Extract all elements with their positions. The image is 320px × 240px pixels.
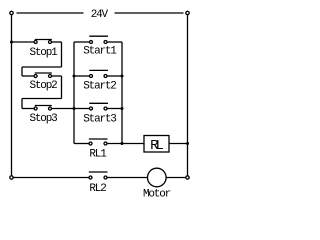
wire Start group right bus	[121, 42, 123, 144]
wire row3 into Stop3	[22, 108, 34, 110]
pushbutton Stop1 (NC)	[34, 40, 52, 44]
wire left rail vertical	[11, 15, 13, 176]
wire RL1 row left	[74, 143, 89, 145]
relay contact RL1 (NO)	[89, 139, 108, 145]
wire Start2 branch left	[74, 75, 90, 77]
junction right rail RL coil row	[186, 142, 189, 145]
relay coil RL box	[144, 136, 169, 153]
wire Start3 branch right	[107, 108, 122, 110]
wire coil to right rail	[169, 143, 188, 145]
terminal bottom left	[10, 176, 13, 179]
wire right rail vertical	[187, 15, 189, 176]
wire Stop1 exit	[51, 41, 61, 43]
pushbutton Stop2 (NC)	[34, 73, 52, 78]
pushbutton Start3 (NO)	[89, 103, 108, 110]
wire top rail left segment	[17, 12, 84, 14]
svg-text:Start1: Start1	[83, 46, 117, 58]
wire Start1 branch right	[107, 41, 122, 43]
wire vertical after Stop2	[61, 76, 63, 99]
pushbutton Start2 (NO)	[89, 70, 108, 77]
motor M	[148, 168, 167, 187]
wire vertical into Stop3	[21, 99, 23, 109]
pushbutton Start1 (NO)	[89, 36, 108, 43]
svg-text:RL1: RL1	[89, 149, 107, 161]
svg-text:Motor: Motor	[143, 189, 171, 201]
svg-text:RL2: RL2	[89, 183, 106, 195]
svg-text:Stop2: Stop2	[29, 80, 57, 92]
svg-text:Start3: Start3	[83, 114, 116, 126]
wire horizontal zigzag 1	[22, 66, 62, 68]
wire RL2 to motor	[107, 177, 147, 179]
terminal 24V left	[10, 11, 13, 14]
wire Start2 branch right	[107, 75, 122, 77]
pushbutton Stop3 (NC)	[34, 106, 52, 111]
wire vertical into Stop2	[21, 67, 23, 76]
wire Start group left bus	[73, 42, 75, 144]
junction right bus RL1 row	[121, 142, 124, 145]
junction left rail row1	[10, 41, 13, 44]
svg-text:Stop1: Stop1	[29, 47, 58, 59]
terminal 24V right	[186, 11, 189, 14]
svg-text:Start2: Start2	[83, 81, 116, 93]
wire vertical after Stop1	[61, 42, 63, 67]
relay contact RL2 (NO)	[89, 172, 108, 179]
svg-text:24V: 24V	[91, 9, 109, 21]
junction right bus row2	[121, 75, 124, 78]
wire motor to right terminal	[166, 177, 186, 179]
wire top rail right segment	[115, 12, 184, 14]
wire Stop2 exit	[51, 75, 61, 77]
wire Stop3 exit to Start3 branch	[51, 108, 89, 110]
wire Start1 branch left	[74, 41, 90, 43]
junction left bus row2	[73, 75, 76, 78]
junction left bus row3	[73, 107, 76, 110]
wire horizontal zigzag 2	[22, 98, 62, 100]
junction right bus row3	[121, 107, 124, 110]
terminal bottom right	[186, 176, 189, 179]
wire row1 from left rail to Stop1	[12, 41, 35, 43]
wire bottom rail to RL2	[13, 177, 89, 179]
svg-text:Stop3: Stop3	[29, 113, 57, 125]
wire RL1 to coil	[107, 143, 144, 145]
wire row2 into Stop2	[22, 75, 34, 77]
